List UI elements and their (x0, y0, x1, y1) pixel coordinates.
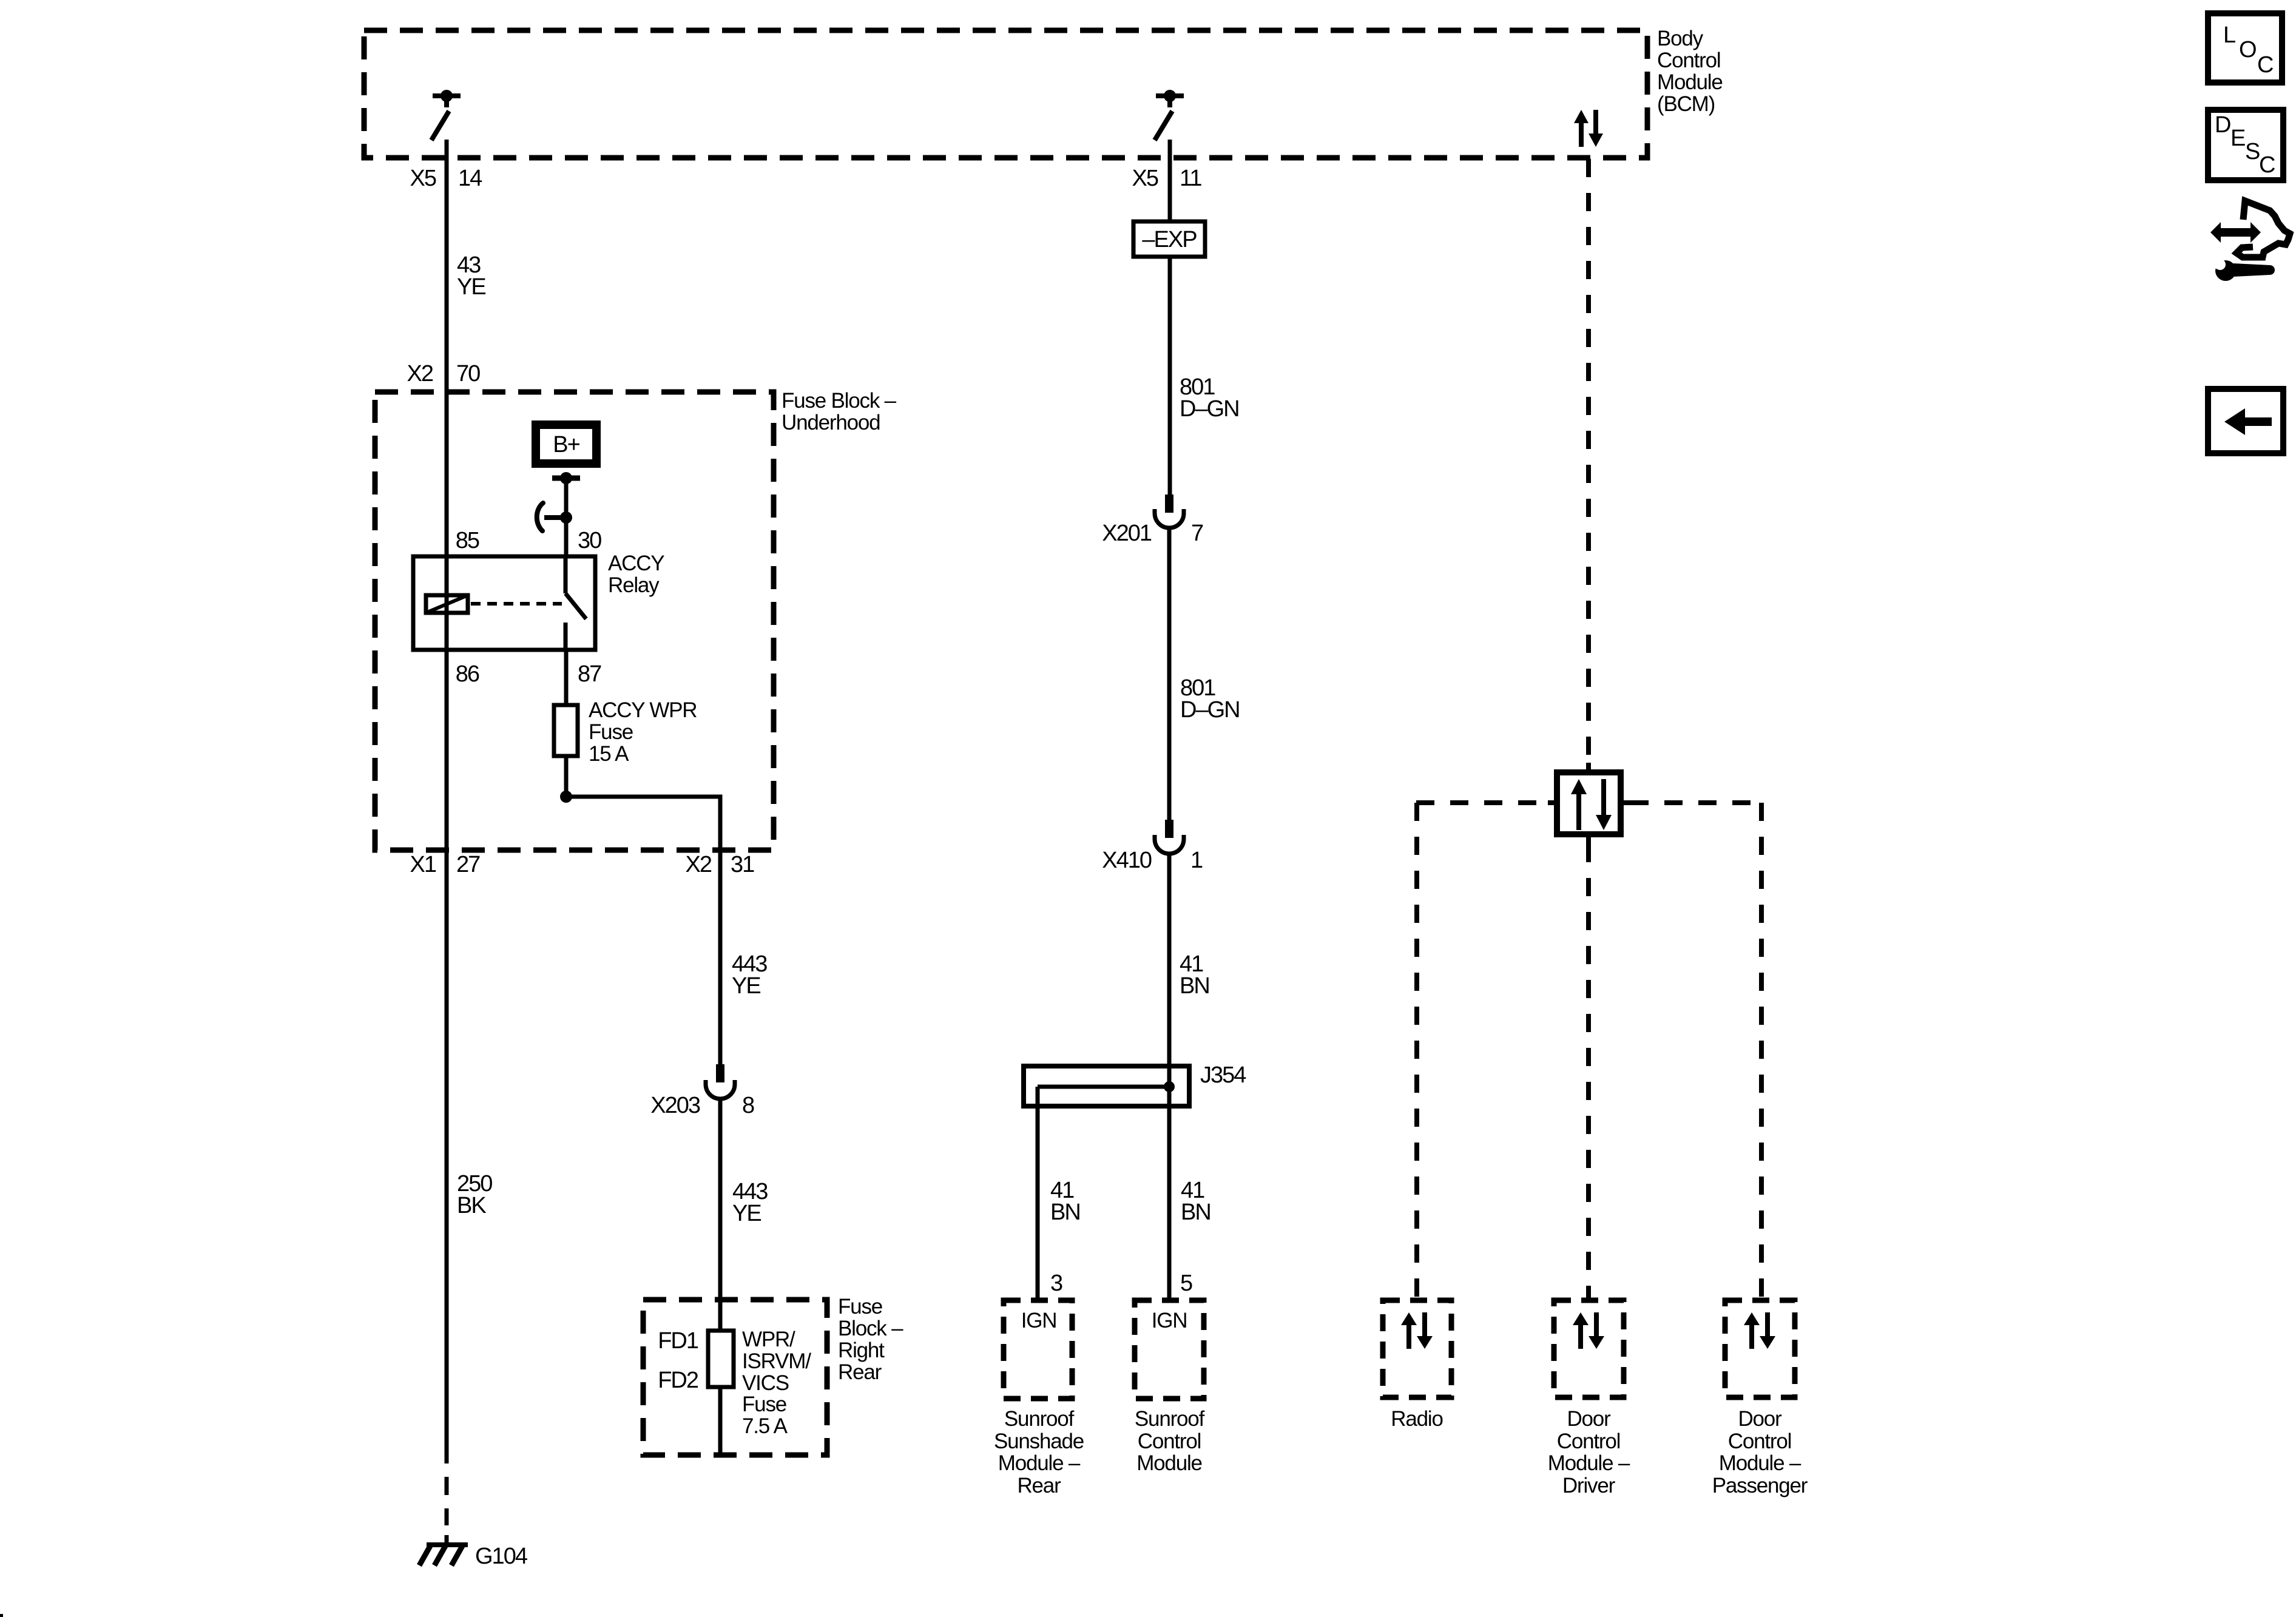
svg-text:7.5 A: 7.5 A (742, 1414, 788, 1438)
svg-text:86: 86 (456, 661, 479, 687)
LOC icon box (2208, 13, 2282, 83)
svg-text:Sunroof: Sunroof (1135, 1407, 1205, 1431)
svg-text:87: 87 (578, 661, 601, 687)
svg-text:Module –: Module – (1548, 1451, 1630, 1475)
BCM name label (1657, 27, 1723, 116)
connector X5 pin 14 labels (410, 166, 483, 191)
svg-text:Sunshade: Sunshade (994, 1430, 1084, 1453)
switch S1 inside BCM (left output driver) (431, 90, 461, 140)
wire: circuit 801 D-GN from BCM X5-11 (1168, 140, 1172, 495)
svg-text:Fuse: Fuse (838, 1295, 882, 1318)
svg-text:85: 85 (456, 528, 479, 553)
back arrow icon box (2208, 389, 2283, 453)
diagnostic tool icon (double arrow, outline, wrench) (2210, 201, 2290, 281)
svg-text:X5: X5 (1132, 166, 1158, 191)
svg-text:O: O (2239, 37, 2256, 62)
connector X2 pin 31 labels (686, 852, 755, 877)
svg-text:ACCY WPR: ACCY WPR (589, 698, 697, 722)
svg-text:Body: Body (1657, 27, 1704, 50)
svg-text:–EXP: –EXP (1142, 227, 1197, 252)
connector X5 pin 11 labels (1132, 166, 1202, 191)
svg-text:Radio: Radio (1391, 1407, 1442, 1431)
svg-text:Underhood: Underhood (782, 411, 880, 434)
svg-text:D–GN: D–GN (1180, 396, 1239, 422)
DESC icon box (2208, 110, 2283, 180)
svg-text:ACCY: ACCY (608, 552, 664, 575)
Door Control Module - Passenger dashed box (1725, 1300, 1795, 1397)
wire label 41 BN (right branch) (1181, 1178, 1210, 1225)
svg-text:15 A: 15 A (589, 742, 629, 766)
WPR/ISRVM/VICS Fuse 7.5 A (708, 1331, 734, 1387)
Sunroof Sunshade Module - Rear caption (994, 1407, 1084, 1497)
serial data link node (box with arrows) (1548, 763, 1630, 844)
ACCY Relay name (608, 552, 664, 597)
svg-text:Rear: Rear (838, 1360, 882, 1384)
svg-text:Sunroof: Sunroof (1004, 1407, 1075, 1431)
wire label 443 YE (upper) (732, 951, 767, 999)
Sunroof Sunshade Module - Rear dashed box with IGN (1004, 1300, 1072, 1399)
svg-text:G104: G104 (475, 1544, 528, 1569)
svg-text:S: S (2245, 139, 2260, 164)
svg-text:27: 27 (456, 852, 480, 877)
Body Control Module (BCM) dashed box (364, 30, 1647, 158)
svg-text:1: 1 (1190, 848, 1203, 873)
wire B+ to relay pin 30 (564, 478, 569, 556)
svg-text:Fuse: Fuse (742, 1393, 786, 1416)
svg-text:YE: YE (732, 1201, 761, 1226)
BCM serial data up arrow (1574, 110, 1589, 147)
svg-text:Block –: Block – (838, 1317, 903, 1340)
svg-text:11: 11 (1180, 166, 1201, 191)
svg-text:Right: Right (838, 1338, 885, 1362)
-EXP option box (1133, 221, 1205, 257)
in-line connector X203 pin 8 (650, 1064, 754, 1118)
wire label 250 BK (457, 1171, 492, 1218)
svg-text:IGN: IGN (1021, 1309, 1057, 1332)
svg-text:30: 30 (578, 528, 601, 553)
svg-text:3: 3 (1050, 1271, 1062, 1296)
dashed drop to Door Control Module Passenger (1759, 803, 1764, 1300)
svg-text:BN: BN (1181, 1200, 1210, 1225)
wire X201 to X410 (1167, 527, 1172, 820)
splice pack J354 (1024, 1062, 1246, 1106)
serial data dashed drop from BCM (1586, 159, 1591, 763)
ground G104 (419, 1544, 528, 1569)
svg-text:VICS: VICS (742, 1371, 789, 1395)
ground wire dashed tail (445, 1477, 449, 1545)
svg-text:Fuse Block –: Fuse Block – (782, 389, 897, 413)
Door Control Module - Driver caption (1548, 1407, 1630, 1497)
WPR/ISRVM/VICS fuse label (742, 1328, 811, 1438)
svg-text:D: D (2215, 112, 2230, 138)
svg-text:Driver: Driver (1562, 1474, 1616, 1497)
svg-text:BK: BK (457, 1193, 486, 1218)
in-line connector X410 pin 1 (1102, 820, 1203, 873)
svg-text:C: C (2259, 152, 2275, 178)
svg-text:FD1: FD1 (658, 1328, 698, 1354)
Radio dashed box (1383, 1300, 1451, 1397)
serial data dashed bus left segment (1416, 800, 1548, 805)
svg-text:Module –: Module – (998, 1451, 1081, 1475)
svg-text:BN: BN (1180, 973, 1209, 999)
in-line connector X201 pin 7 (1102, 495, 1203, 546)
dashed drop to Radio (1414, 803, 1419, 1300)
svg-text:E: E (2230, 126, 2245, 151)
svg-text:YE: YE (457, 274, 485, 300)
svg-text:IGN: IGN (1152, 1309, 1187, 1332)
svg-text:Module –: Module – (1719, 1451, 1801, 1475)
svg-text:ISRVM/: ISRVM/ (742, 1349, 811, 1373)
wire J354 branch to sunshade module pin 3 (1036, 1087, 1040, 1300)
relay actuation dashed link (471, 602, 562, 606)
svg-text:X5: X5 (410, 166, 436, 191)
fuse terminal labels FD1 / FD2 (658, 1328, 698, 1393)
Fuse Block - Right Rear label (838, 1295, 903, 1384)
wire label 43 YE (457, 252, 485, 300)
svg-text:L: L (2223, 22, 2235, 48)
svg-text:7: 7 (1191, 521, 1203, 546)
svg-text:X410: X410 (1102, 848, 1152, 873)
switch S2 inside BCM (middle output driver) (1155, 90, 1184, 140)
wire label 801 D-GN (lower) (1180, 675, 1240, 723)
wire fuse output (564, 756, 569, 797)
svg-text:(BCM): (BCM) (1657, 92, 1715, 116)
svg-text:X1: X1 (410, 852, 436, 877)
Fuse Block - Underhood dashed box (375, 392, 774, 850)
B+ battery positive terminal (532, 420, 601, 468)
serial data dashed bus right segment (1630, 800, 1761, 805)
svg-text:YE: YE (732, 973, 760, 999)
svg-text:14: 14 (458, 166, 482, 191)
wire X410 to sunroof control module pin 5 (1167, 852, 1172, 1300)
wire label 801 D-GN (upper) (1180, 374, 1239, 422)
svg-text:X2: X2 (686, 852, 712, 877)
svg-text:X2: X2 (407, 361, 433, 387)
svg-text:Module: Module (1657, 70, 1723, 94)
relay switch contact (566, 556, 586, 650)
wire label 41 BN (left branch) (1050, 1178, 1080, 1225)
svg-text:Fuse: Fuse (589, 720, 633, 744)
svg-text:WPR/: WPR/ (742, 1328, 795, 1351)
ACCY WPR fuse label (589, 698, 697, 766)
Fuse Block - Right Rear dashed box (643, 1300, 827, 1455)
wire relay 87 to fuse (564, 650, 569, 705)
svg-text:BN: BN (1050, 1200, 1080, 1225)
svg-text:Rear: Rear (1017, 1474, 1061, 1497)
svg-text:B+: B+ (553, 432, 579, 457)
svg-text:Control: Control (1728, 1430, 1791, 1453)
ACCY WPR Fuse 15 A (554, 705, 578, 756)
svg-text:31: 31 (731, 852, 754, 877)
wire X203 to fuse block right rear (718, 1099, 723, 1454)
wire: circuit 43 YE from BCM X5-14 down left column (445, 140, 449, 1463)
wire: jog right to X2-31 (566, 797, 720, 1064)
svg-text:Relay: Relay (608, 573, 660, 597)
svg-text:FD2: FD2 (658, 1368, 698, 1393)
svg-text:8: 8 (742, 1093, 754, 1118)
svg-text:Control: Control (1657, 49, 1720, 72)
Sunroof Control Module caption (1135, 1407, 1205, 1475)
clip/splice hook symbol on B+ feed (537, 503, 572, 531)
node: fuse output junction (560, 791, 572, 803)
svg-text:70: 70 (456, 361, 480, 387)
svg-text:Control: Control (1138, 1430, 1201, 1453)
svg-text:5: 5 (1180, 1271, 1192, 1296)
relay coil (426, 595, 468, 613)
node: B+ feed junction (552, 472, 580, 484)
Door Control Module - Passenger caption (1712, 1407, 1808, 1497)
svg-text:Door: Door (1738, 1407, 1782, 1431)
Fuse Block - Underhood label (782, 389, 897, 434)
svg-text:Control: Control (1557, 1430, 1620, 1453)
svg-text:Door: Door (1567, 1407, 1611, 1431)
svg-text:J354: J354 (1200, 1062, 1246, 1088)
dashed drop to Door Control Module Driver (1586, 844, 1591, 1300)
relay pin labels 85 / 30 (456, 528, 601, 553)
relay pin labels 86 / 87 (456, 661, 601, 687)
svg-text:X201: X201 (1102, 521, 1152, 546)
svg-text:Passenger: Passenger (1712, 1474, 1808, 1497)
BCM serial data down arrow (1589, 110, 1603, 147)
svg-text:C: C (2257, 52, 2273, 78)
connector X1 pin 27 labels (410, 852, 481, 877)
Door Control Module - Driver dashed box (1554, 1300, 1624, 1397)
Sunroof Control Module dashed box with IGN (1135, 1300, 1204, 1399)
svg-text:D–GN: D–GN (1180, 697, 1240, 723)
svg-text:X203: X203 (650, 1093, 700, 1118)
page corner mark (0, 1614, 3, 1617)
wire label 41 BN (above J354) (1180, 951, 1209, 999)
connector X2 pin 70 labels (407, 361, 481, 387)
svg-text:Module: Module (1136, 1451, 1202, 1475)
wire label 443 YE (lower) (732, 1179, 768, 1226)
ACCY Relay box U (413, 556, 595, 650)
